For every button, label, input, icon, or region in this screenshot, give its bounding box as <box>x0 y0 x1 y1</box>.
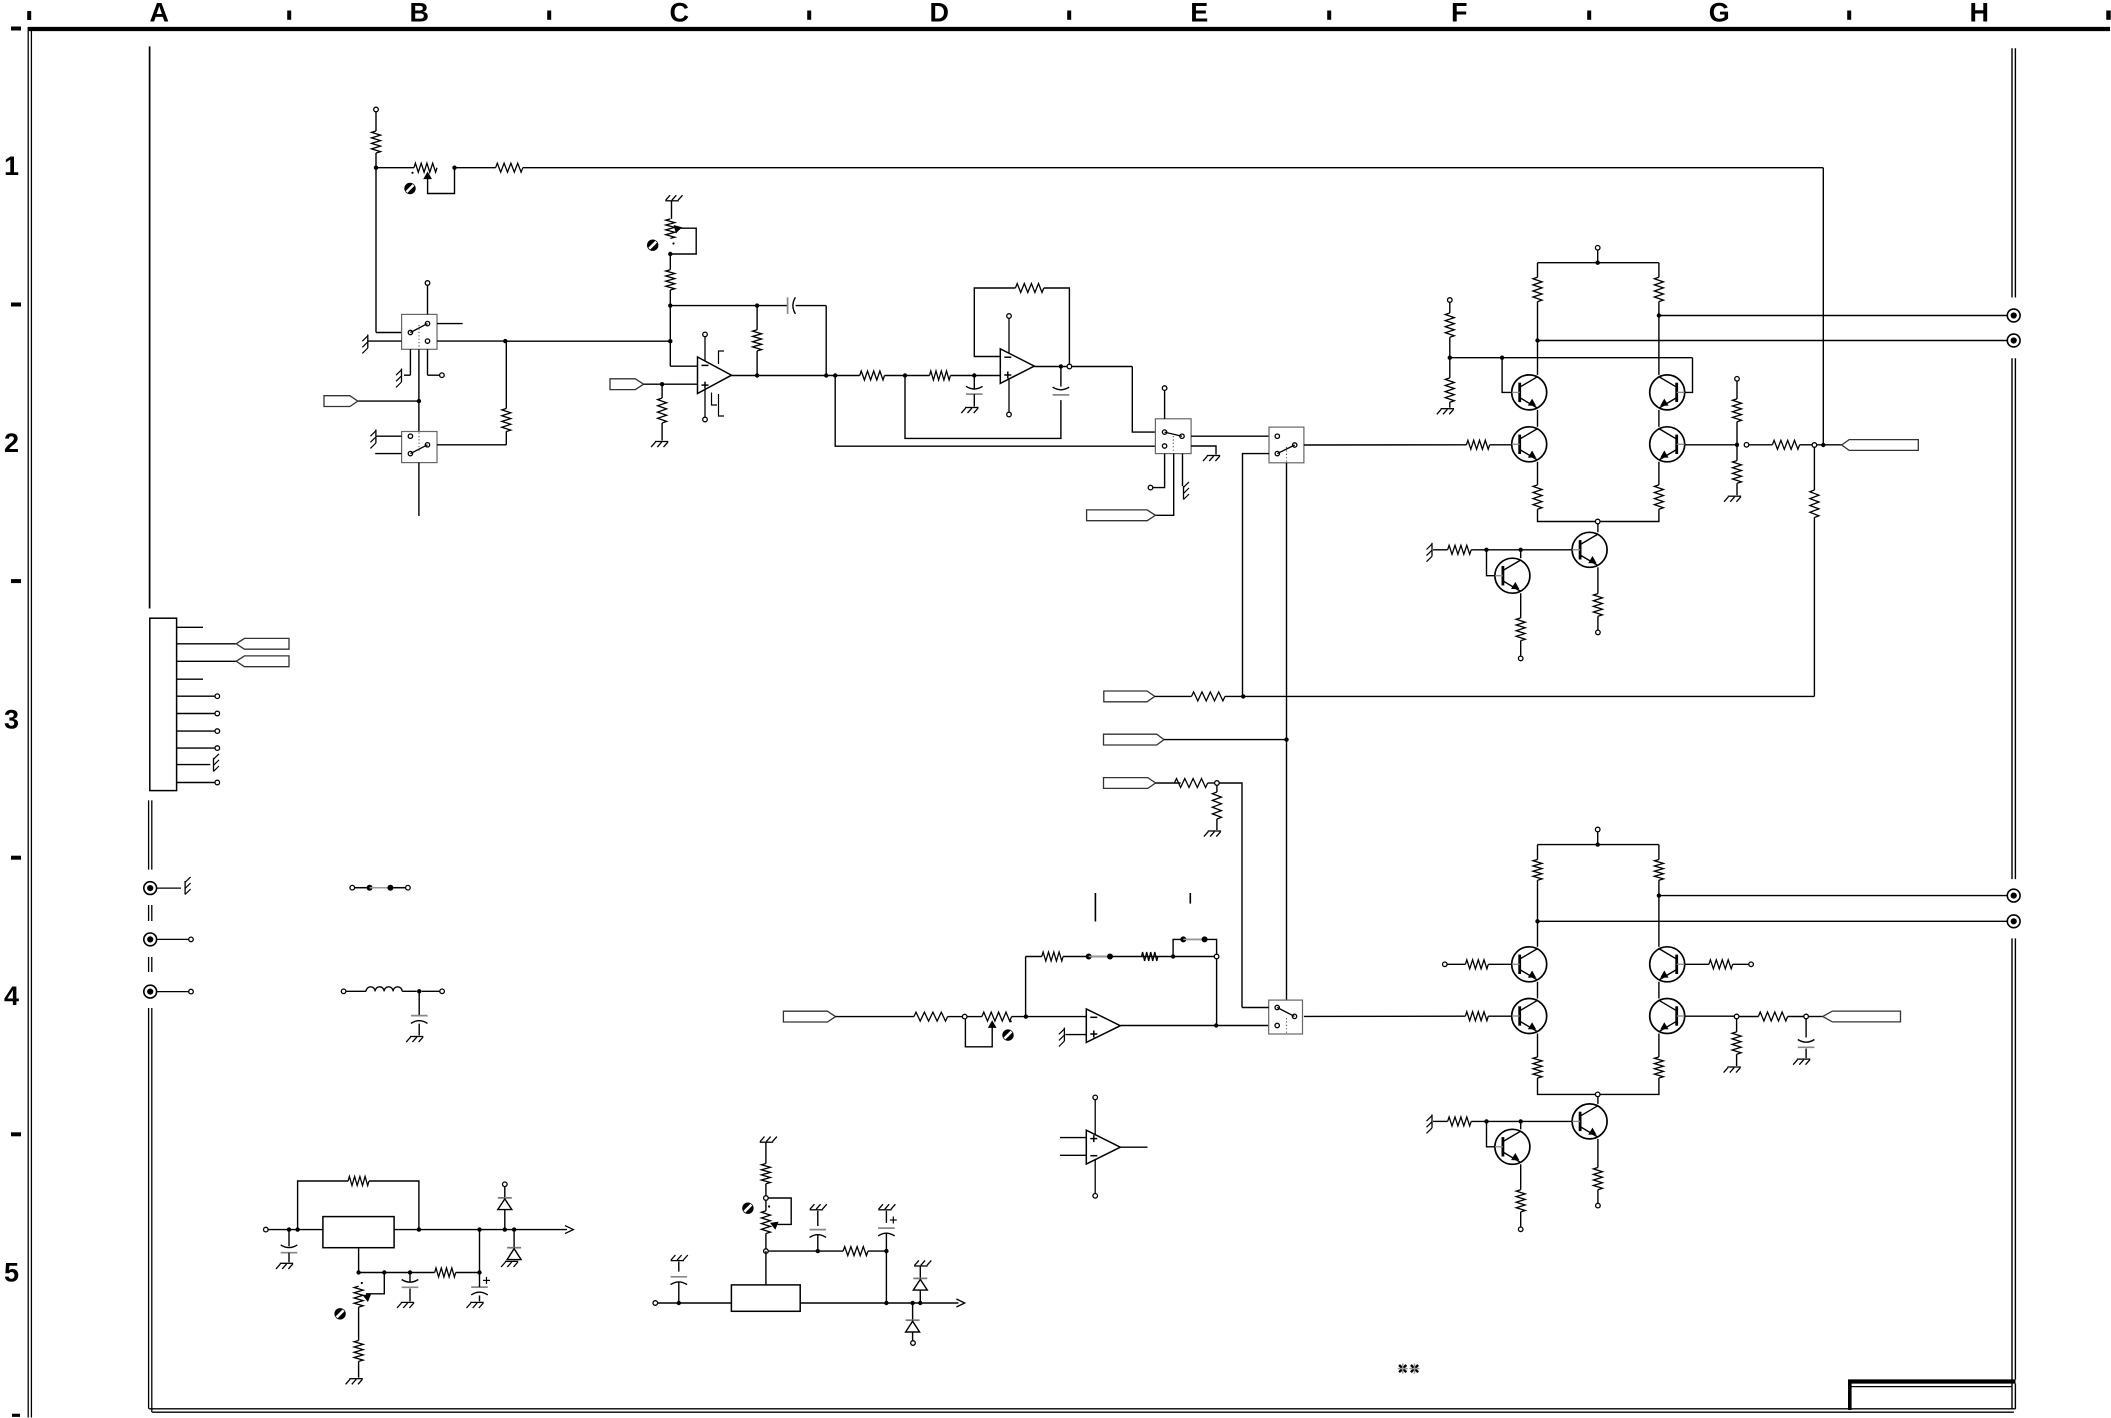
resistor R8 <box>905 375 930 377</box>
cap C7 (PSU2 adj) <box>817 1235 819 1251</box>
switch SW3 (E2 left) <box>1155 419 1191 454</box>
inductor L1 <box>366 987 375 991</box>
bottom stage: transistor Q4 <box>1650 999 1685 1034</box>
SW1 bottom pin c to terminal <box>427 349 429 375</box>
svg-text:1: 1 <box>4 151 19 181</box>
bottom stage: pull resistor to ground <box>1736 1019 1738 1032</box>
SW4 left-bottom wire <box>1243 454 1270 697</box>
bottom stage: emitter resistor left <box>1537 1034 1539 1058</box>
top stage: ground below bias chain <box>1441 408 1454 410</box>
SW3 bottom pin b to tag <box>1155 454 1173 516</box>
top stage: bias rail <box>1450 357 1693 359</box>
screwdriver adjust mark VR2 <box>647 240 658 251</box>
node R4 / feedback rail <box>668 303 672 307</box>
wire U1 output to SW3 (bypass) <box>835 376 1155 447</box>
resistor R1 (vertical at B1) <box>372 131 381 153</box>
U1 output row <box>732 375 860 377</box>
bottom stage: emitter resistor right <box>1658 1034 1660 1058</box>
trimmer pot VR2 (vertical) <box>666 219 675 239</box>
tag on CN1 pin 2 <box>236 638 289 649</box>
bottom stage: wire to output jack 1 <box>1657 893 1661 897</box>
pin circle above VR5 <box>764 1196 769 1201</box>
switch SW2 (B2 lower) <box>402 432 437 463</box>
U1 V+ pin <box>703 332 708 337</box>
PSU1 sense riser <box>479 1230 481 1273</box>
long wire to output stage (row1) <box>523 167 1824 169</box>
bottom stage: collector resistor left <box>1533 860 1542 881</box>
R7/C2 lowpass loop <box>905 376 1061 439</box>
SW1 bottom pin b to node B2 <box>418 349 420 431</box>
node on bus 2 <box>1284 737 1288 741</box>
NFB drop to U3 output <box>1216 959 1218 1026</box>
top stage: ground below pull resistor <box>1728 495 1741 497</box>
U2 V+ pin <box>1007 314 1012 319</box>
bottom stage: transistor Q3 <box>1512 999 1547 1034</box>
bottom stage: driver transistor Q6 <box>1495 1129 1530 1164</box>
top stage: Q4 base wire <box>1685 444 1737 446</box>
top stage: transistor Q1 <box>1512 375 1547 410</box>
bottom stage: output resistor <box>1739 1016 1759 1018</box>
PSU1 output rail <box>394 1229 567 1231</box>
connector CN1 <box>150 618 177 790</box>
trimmer pot VR4 (vertical) <box>361 1282 363 1284</box>
SW2 left-bottom stub <box>375 453 401 455</box>
node at U1 + input <box>660 382 664 386</box>
op-amp U2 <box>1000 349 1034 384</box>
PSU1 input cap <box>288 1230 290 1247</box>
resistor R12 <box>1174 779 1207 788</box>
voltage regulator IC2 <box>731 1285 800 1311</box>
SW3 bottom pin a <box>1153 454 1165 488</box>
left bus dashes <box>148 905 150 921</box>
asterisk marks <box>1399 1365 1406 1372</box>
resistor R17 (PSU1 loop) <box>348 1177 369 1186</box>
bottom stage: transistor Q1 <box>1512 947 1547 982</box>
capacitor C3 (U2 + input) <box>973 376 975 389</box>
top stage: emitter resistor left <box>1537 462 1539 485</box>
jumper link J1 <box>350 885 355 890</box>
diode D4 (lower) <box>912 1303 914 1320</box>
ground below L1 capacitor <box>410 1036 423 1038</box>
cap C9 (PSU2 input) <box>678 1282 680 1303</box>
U4 V- pin <box>1093 1194 1098 1199</box>
bottom stage: wire to output jack 2 <box>1535 919 1539 923</box>
PSU1 adj row <box>359 1272 435 1274</box>
PSU1 feedback loop <box>298 1181 349 1230</box>
svg-text:F: F <box>1451 0 1468 28</box>
ground below R6 <box>655 441 668 443</box>
top stage: bias chain resistor lower <box>1445 378 1454 402</box>
top stage: output jack pair <box>2007 309 2020 322</box>
screwdriver adjust mark VR4 <box>334 1308 345 1319</box>
bottom stage: bias resistor <box>1448 1117 1472 1126</box>
ground at U3 + input <box>1065 1034 1086 1036</box>
grid row ticks <box>11 27 21 31</box>
IC2 adj stem <box>765 1251 767 1285</box>
capacitor C2 <box>1053 394 1070 396</box>
U2 feedback loop <box>974 288 1015 357</box>
U2 V- pin <box>1007 412 1012 417</box>
SW2 right wire to R3 <box>437 444 506 446</box>
U4 output stub <box>1121 1146 1148 1148</box>
top stage: output resistor <box>1749 444 1773 446</box>
bottom stage: driver transistor Q5 <box>1572 1104 1607 1139</box>
top stage: wire to output jack 2 <box>1535 338 1539 342</box>
U3 NFB row <box>1026 956 1042 958</box>
left bus line (lower section) <box>148 1008 150 1409</box>
PSU2 output arrow <box>956 1299 964 1307</box>
U2 output row <box>1034 366 1132 368</box>
bottom stage: collector resistor right <box>1654 860 1663 881</box>
svg-text:E: E <box>1190 0 1208 28</box>
bottom stage: output cap to ground <box>1805 1019 1807 1038</box>
node switch wire joins <box>668 339 672 343</box>
top stage: bias node b (Q6 collector) <box>1519 548 1523 552</box>
left bus line (below connector) <box>148 800 150 869</box>
switch SW1 (B2 upper) <box>402 314 437 349</box>
terminal T2 <box>144 933 157 946</box>
tag bottom channel input <box>783 1011 835 1022</box>
bottom stage: transistor Q2 <box>1650 947 1685 982</box>
resistor R4 (vertical) <box>666 270 675 290</box>
resistor R13 (to ground) <box>1216 785 1218 792</box>
bottom stage: Q2 base resistor <box>1685 963 1709 965</box>
terminal T3 <box>144 985 157 998</box>
switch SW4 (E2 right) <box>1269 427 1304 463</box>
node NFB <box>1241 694 1245 698</box>
SW3 top terminal <box>1162 386 1167 391</box>
top stage: collector resistor right <box>1654 277 1663 301</box>
cap C6 (PSU1 out, electrolytic) <box>471 1286 488 1288</box>
ground below R13 <box>1208 830 1221 832</box>
ground below PSU1 input cap <box>280 1262 293 1264</box>
top stage: output tag <box>1842 440 1919 451</box>
SW5 left-top wire to R12 drop <box>1242 1007 1269 1009</box>
ground below C6 <box>470 1301 483 1303</box>
top stage: transistor Q2 <box>1650 375 1685 410</box>
top stage: transistor Q4 <box>1650 427 1685 462</box>
inner frame bottom double line <box>149 1408 2016 1410</box>
feedback top rail <box>670 305 787 307</box>
resistor R21 <box>843 1247 868 1256</box>
ground above VR2 <box>665 200 678 202</box>
feedback drop to output <box>825 306 827 376</box>
resistor R19 below VR4 <box>358 1307 360 1340</box>
bottom stage: output node circle <box>1804 1014 1809 1019</box>
resistor R20 (PSU2) <box>761 1164 770 1184</box>
right bus line <box>2011 48 2013 297</box>
top stage: bias ground <box>1433 549 1448 551</box>
PSU1 output arrow <box>565 1226 573 1234</box>
U3 output row <box>1121 1025 1270 1027</box>
node at U2 + input <box>972 373 976 377</box>
U3 NFB loop rise <box>1025 957 1027 1017</box>
svg-text:4: 4 <box>4 981 19 1011</box>
resistor R2 <box>496 163 523 172</box>
PSU2 top ground <box>760 1141 773 1143</box>
screwdriver adjust mark VR3 <box>1002 1029 1013 1040</box>
pin circle below VR5 <box>765 1234 767 1249</box>
PSU2 output rail <box>800 1302 958 1304</box>
tag on CN1 pin 3 <box>236 656 289 667</box>
NFB rise to output node <box>1813 518 1815 697</box>
top stage: Q4 node <box>1735 443 1739 447</box>
chassis terminal T1 <box>144 882 157 895</box>
screwdriver adjust mark VR1 <box>404 183 415 194</box>
CN1 pin 2 wire <box>177 643 237 645</box>
SW1 right-top stub <box>437 323 463 325</box>
top stage: pull resistor upper <box>1733 399 1742 422</box>
resistor R16 (NFB) <box>1142 952 1158 961</box>
top stage: V+ terminal <box>1595 246 1600 251</box>
bottom-left border tick <box>12 1414 20 1417</box>
input terminal at B1 <box>374 107 379 112</box>
CN1 pin 9 wire <box>177 764 211 766</box>
inductor L1 input terminal <box>341 989 346 994</box>
NFB bump node <box>1171 954 1175 958</box>
bottom stage: output tag <box>1808 1016 1822 1018</box>
svg-text:C: C <box>669 0 689 28</box>
top stage: wire to output jack 1 <box>1657 313 1661 317</box>
op-amp U3 <box>1086 1009 1120 1043</box>
pin circle before VR3 <box>962 1014 967 1019</box>
NFB jumper dots 1 <box>1086 954 1092 960</box>
node after R7 <box>903 373 907 377</box>
svg-text:5: 5 <box>4 1258 19 1288</box>
ground below C5 <box>401 1301 414 1303</box>
bottom stage: collector rail <box>1596 842 1600 846</box>
top stage: Q1 base loop <box>1502 358 1512 393</box>
NFB node circle at output row <box>1812 443 1817 448</box>
top stage: transistor Q3 <box>1512 427 1547 462</box>
top stage: driver transistor Q6 <box>1495 558 1530 593</box>
capacitor C1 (series, feedback) <box>787 297 789 314</box>
U1 V- pin <box>703 417 708 422</box>
ground above C8 <box>878 1209 891 1211</box>
top stage: bias resistor <box>1448 545 1472 554</box>
node at B1 <box>374 166 378 170</box>
resistor R3 (vertical) <box>505 432 507 445</box>
chassis ground at T1 <box>184 881 186 895</box>
resistor R6 (to ground at U1+) <box>661 384 663 398</box>
ground above C9 <box>671 1260 684 1262</box>
ground below R19 <box>349 1378 362 1380</box>
top stage: Q6 collector link <box>1520 550 1522 558</box>
SW4 bottom pin (bus to lower channel) <box>1286 463 1288 1000</box>
SW4 right output wire to Q1 base resistor <box>1304 444 1467 446</box>
SW3 bottom pin c to ground <box>1182 454 1184 486</box>
trimmer pot VR3 <box>967 1016 982 1018</box>
voltage regulator IC1 <box>323 1217 394 1248</box>
bottom stage: bias ground <box>1433 1120 1448 1122</box>
node below VR2 <box>668 252 672 256</box>
bottom stage: mid node circle <box>1595 1092 1600 1097</box>
top stage: emitter resistor right <box>1658 462 1660 485</box>
chassis ground at CN1 pin 9 <box>213 758 215 772</box>
op-amp U4 (spare) <box>1086 1130 1120 1164</box>
svg-text:D: D <box>929 0 949 28</box>
top stage: pull chain circle top <box>1735 377 1740 382</box>
diode D2 (lower) <box>513 1230 515 1248</box>
bottom stage: bias node a <box>1484 1119 1488 1123</box>
top stage: Q2 base loop <box>1685 358 1693 393</box>
bottom stage: output jack pair <box>2007 889 2020 902</box>
top stage: Q6 base link <box>1487 550 1495 576</box>
NFB bump loop with jumper <box>1173 939 1217 956</box>
bottom stage: V+ terminal <box>1595 827 1600 832</box>
resistor R7 <box>860 371 885 380</box>
cap C8 (PSU2, electrolytic) <box>885 1233 887 1251</box>
tag MUTE (SW3) <box>1087 510 1156 521</box>
bottom stage: Q4 node circle <box>1734 1014 1739 1019</box>
svg-text:H: H <box>1969 0 1989 28</box>
top stage: bias rail node <box>1448 356 1452 360</box>
svg-text:B: B <box>409 0 429 28</box>
svg-text:A: A <box>149 0 169 28</box>
CN1 pin 5 wire <box>177 695 215 697</box>
PSU1 input terminal <box>264 1227 269 1232</box>
trimmer pot VR5 (vertical) <box>765 1200 767 1211</box>
ground below D2 <box>505 1260 518 1262</box>
bottom stage: Q5 emitter resistor <box>1597 1139 1599 1168</box>
bottom stage: Q1-Q3 darlington link <box>1537 982 1539 999</box>
bottom stage: Q6 collector link <box>1520 1121 1522 1129</box>
top stage: output node dot <box>1821 443 1825 447</box>
wire down from row1 to output node <box>1822 168 1824 445</box>
PSU2 input terminal <box>653 1301 658 1306</box>
op-amp U1 <box>670 365 697 367</box>
resistor R11 (NFB vertical) <box>1810 490 1819 518</box>
wire U2 output to SW3 <box>1132 367 1155 433</box>
PSU2 sense riser <box>885 1251 887 1303</box>
CN1 pin 10 wire <box>177 782 215 784</box>
top stage: Q5 emitter resistor <box>1597 567 1599 593</box>
tag row3 (bottom channel input) <box>1104 778 1156 789</box>
spare stub marks <box>1094 893 1096 922</box>
top stage: pull resistor lower <box>1736 445 1738 461</box>
bottom stage: Q1 base resistor <box>1443 962 1448 967</box>
resistor R10 (NFB) <box>1192 692 1226 701</box>
SW1 top pin terminal <box>425 281 430 286</box>
CN1 pin 7 wire <box>177 730 215 732</box>
node B2 (tag junction) <box>417 399 421 403</box>
U4 input stubs <box>1060 1137 1086 1139</box>
svg-text:2: 2 <box>4 428 19 458</box>
top stage: Q3 base resistor <box>1466 440 1489 449</box>
cap C5 (PSU1 adj) <box>409 1273 411 1283</box>
chassis ground at SW1 left <box>437 340 505 342</box>
chassis ground at SW2 left <box>376 435 402 437</box>
node R3 top <box>503 339 507 343</box>
bottom stage: Q2-Q4 darlington link <box>1658 982 1660 999</box>
SW3 right ground pin <box>1191 446 1216 455</box>
ground above C7 <box>810 1209 823 1211</box>
bottom stage: Q6 base link <box>1487 1121 1495 1146</box>
tag at U1 + input <box>610 379 644 390</box>
resistor R18 <box>435 1268 456 1277</box>
IC1 adj stem <box>358 1248 360 1273</box>
CN1 pin 1 stub <box>177 626 203 628</box>
bottom stage: Q4 base wire <box>1685 1015 1735 1017</box>
switch SW5 (bottom channel) <box>1269 1000 1303 1034</box>
svg-text:G: G <box>1709 0 1730 28</box>
top stage: collector resistor left <box>1533 277 1542 301</box>
bottom stage: bias node b (Q6 collector) <box>1519 1119 1523 1123</box>
grid column ticks <box>287 11 291 20</box>
top stage: driver transistor Q5 <box>1572 532 1607 567</box>
U2 output pin circle <box>1067 364 1072 369</box>
CN1 pin 4 stub <box>177 678 203 680</box>
U4 V+ pin <box>1093 1095 1098 1100</box>
CN1 pin 6 wire <box>177 713 215 715</box>
node after VR1 <box>452 166 456 170</box>
diode D3 (upper) <box>914 1265 927 1267</box>
NFB tag (top channel) <box>1104 691 1155 702</box>
top stage: Q2-Q4 darlington link <box>1658 410 1660 427</box>
ground below C3 <box>965 407 978 409</box>
CN1 pin 3 wire <box>177 660 237 662</box>
top stage: Q6 emitter resistor <box>1520 593 1522 618</box>
top stage: Q1-Q3 darlington link <box>1537 410 1539 427</box>
top stage: bias node a <box>1484 548 1488 552</box>
U1 offset pin stubs <box>719 351 725 364</box>
trimmer pot VR1 <box>414 163 437 172</box>
tag at node B2 <box>358 400 419 402</box>
NFB row end circle <box>1214 954 1219 959</box>
bottom stage: Q6 emitter resistor <box>1520 1164 1522 1189</box>
svg-text:3: 3 <box>4 704 19 734</box>
resistor R14 <box>914 1012 948 1021</box>
CN1 pin 8 wire <box>177 747 215 749</box>
SW2 bottom stub <box>418 463 420 516</box>
resistor R5 (feedback, vertical) <box>756 306 758 330</box>
capacitor at L1 output <box>418 991 420 1015</box>
bottom stage: Q3 base resistor <box>1465 1012 1488 1021</box>
PSU2 adj row <box>768 1250 843 1252</box>
node at L1 output <box>417 989 421 993</box>
wire B1 node down to SW1 <box>375 168 377 333</box>
tag row2 (middle) <box>1104 734 1165 745</box>
top stage: collector rail <box>1596 261 1600 265</box>
wire R12 to SW5 drop <box>1219 783 1242 1008</box>
title block <box>1848 1379 2016 1383</box>
top stage: mid node circle <box>1595 519 1600 524</box>
screwdriver adjust mark VR5 <box>742 1203 753 1214</box>
resistor R9 (U2 feedback) <box>1015 284 1043 293</box>
wire SW1 to U1 minus chain <box>505 340 670 342</box>
top stage: bias rail chain terminal <box>1448 298 1453 303</box>
page border frame <box>28 27 2110 31</box>
resistor R15 (NFB) <box>1042 952 1063 961</box>
left bus line (upper section) <box>149 46 151 608</box>
SW3 right wire to SW4 <box>1191 435 1269 437</box>
top stage: bias chain resistor upper <box>1445 313 1454 337</box>
node at U3 - input <box>1012 1016 1087 1018</box>
diode D1 (upper) <box>503 1182 508 1187</box>
SW1 bottom pin a to ground <box>409 349 411 375</box>
pin circle after R12 <box>1215 781 1220 786</box>
